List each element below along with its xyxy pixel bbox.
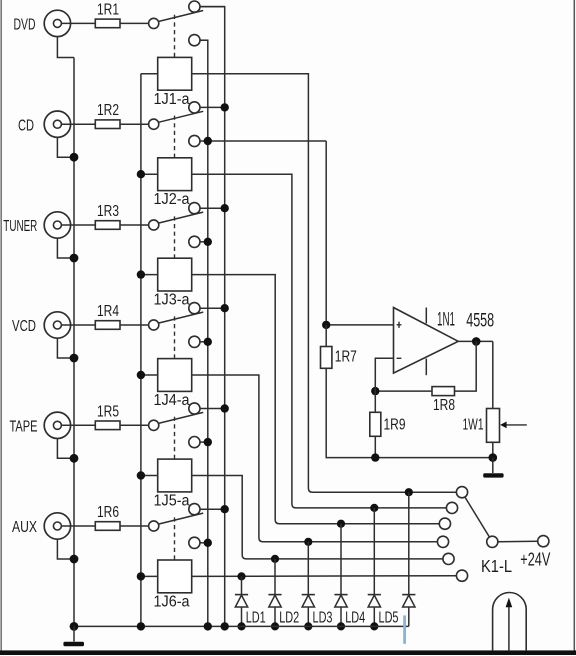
wire coil 1J1 to selector contact 1 — [192, 74, 457, 492]
wire jack pin to resistor 1R6 — [61, 525, 95, 527]
junction: NC throw on NC bus — [204, 438, 212, 446]
net label +24V — [520, 549, 550, 570]
relay 1J6 actuator dashed link — [174, 517, 176, 560]
value label 1R4 — [97, 303, 119, 320]
wire: 1R7 to analog ground rail — [326, 368, 493, 457]
wire jack shield stub to left rail — [57, 238, 74, 258]
right page border — [573, 0, 575, 651]
selector K1-L contact 1 — [456, 487, 467, 498]
svg-text:1R6: 1R6 — [97, 504, 119, 521]
switch 1J6 common contact — [149, 521, 159, 531]
wire diode LD5 drop — [373, 508, 375, 627]
wire: inverting node to 1R9 — [374, 391, 376, 412]
junction: NC throw on NC bus — [204, 238, 212, 246]
switch 1J3 NO contact — [189, 203, 200, 214]
wire jack shield stub to left rail — [57, 137, 74, 157]
selector K1-L contact 6 — [456, 570, 467, 581]
relay 1J1 actuator dashed link — [174, 15, 176, 58]
switch 1J2 armature (common to NO) — [158, 111, 203, 122]
label 1J5-a — [154, 493, 190, 510]
svg-text:LD5: LD5 — [379, 610, 399, 627]
connector J1 DVD RCA jack — [44, 10, 70, 36]
junction: 1R7 top / +input — [322, 321, 330, 329]
junction: coil on common rail — [137, 471, 145, 479]
wire diode LD4 drop — [340, 524, 342, 627]
node TUNER input label — [3, 218, 37, 235]
wire NO throw to NO bus — [200, 408, 225, 410]
resistor 1R8 — [432, 387, 455, 396]
node VCD input label — [12, 318, 36, 335]
switch 1J1 NC contact — [189, 35, 200, 46]
relay 1J4 actuator dashed link — [174, 316, 176, 358]
wire resistor to switch common — [120, 324, 149, 326]
wire: 1W1 bottom to ground rail — [492, 442, 494, 457]
wire resistor to switch common — [120, 525, 149, 527]
wire diode LD2 drop — [274, 559, 276, 627]
wire: NO contact bus (grounded) — [200, 7, 225, 627]
wire jack pin to resistor 1R1 — [61, 22, 95, 24]
relay coil 1J3 — [158, 258, 192, 291]
switch 1J5 common contact — [149, 420, 159, 430]
wire resistor to switch common — [120, 123, 149, 125]
switch 1J1 NO contact — [189, 1, 200, 12]
relay 1J2 actuator dashed link — [174, 116, 176, 158]
svg-text:CD: CD — [18, 117, 34, 134]
wire: output down to feedback — [455, 341, 477, 391]
value label 1R6 — [97, 504, 119, 521]
svg-text:1N1: 1N1 — [437, 310, 455, 331]
lamp filament arrow — [506, 598, 513, 651]
switch 1J2 NC contact — [189, 135, 200, 146]
wire NO throw to NO bus — [200, 6, 225, 8]
svg-text:K1-L: K1-L — [481, 556, 512, 576]
junction: inverting node — [371, 387, 379, 395]
connector J5 TAPE RCA jack — [44, 412, 70, 438]
op-amp + pin marking — [397, 322, 402, 328]
junction: diode LD1 on ground rail — [237, 622, 245, 630]
value label 1R9 — [384, 416, 406, 433]
wire diode LD1 drop — [241, 576, 243, 626]
wire coil to common rail — [141, 575, 158, 577]
svg-text:1J1-a: 1J1-a — [154, 91, 190, 108]
junction: diode LD2 on ground rail — [271, 622, 279, 630]
svg-text:4558: 4558 — [466, 310, 494, 331]
label 1J3-a — [154, 292, 190, 309]
diode LD2 — [268, 595, 281, 607]
junction: diode LD3 tap — [304, 538, 312, 546]
label 1J1-a — [154, 91, 190, 108]
switch 1J3 NC contact — [189, 236, 200, 247]
resistor 1R6 — [95, 522, 120, 531]
wire: K1-L common to +24V terminal — [498, 540, 538, 543]
ground symbol (op-amp section) — [483, 458, 503, 478]
selector K1-L wiper arm — [465, 497, 490, 537]
switch 1J5 NC contact — [189, 437, 200, 448]
ground symbol (main) — [63, 626, 84, 646]
switch 1J1 armature (common to NO) — [158, 11, 203, 22]
wire resistor to switch common — [120, 424, 149, 426]
wire jack shield stub to left rail — [57, 439, 74, 459]
connector J2 CD RCA jack — [44, 111, 70, 137]
junction: diode LD6 tap — [405, 488, 413, 496]
junction: NC bus on ground rail — [204, 622, 212, 630]
svg-text:+24V: +24V — [520, 549, 550, 570]
junction: coil on common rail — [137, 572, 145, 580]
wire jack shield stub to left rail — [57, 539, 74, 559]
svg-text:1R7: 1R7 — [335, 348, 357, 365]
relay 1J3 actuator dashed link — [174, 216, 176, 258]
switch 1J6 NC contact — [189, 537, 200, 548]
op-amp U1 (1N1 4558) triangle — [394, 308, 459, 374]
svg-text:1J4-a: 1J4-a — [154, 392, 190, 409]
selector K1-L contact 5 — [443, 553, 454, 564]
resistor 1R1 — [95, 19, 120, 28]
wire coil 1J4 to selector contact 4 — [192, 375, 438, 542]
svg-text:LD2: LD2 — [279, 610, 299, 627]
relay coil 1J5 — [158, 459, 192, 492]
op-amp power pin tick (top) — [425, 308, 427, 324]
indicator lamp (bottom edge, partial) — [493, 593, 527, 652]
wire NC throw to NC bus — [200, 39, 208, 41]
wire: +input node down to 1R7 — [325, 325, 327, 347]
switch 1J4 NC contact — [189, 336, 200, 347]
junction: shield stub on left rail — [70, 555, 79, 564]
junction: shield stub on left rail — [70, 254, 79, 263]
junction: shield stub on left rail — [70, 354, 79, 363]
junction: NO throw on NO bus — [221, 103, 229, 111]
diode LD4 — [334, 595, 347, 607]
value label 1R2 — [97, 102, 119, 119]
svg-text:DVD: DVD — [14, 17, 36, 34]
wire NC throw to NC bus — [200, 542, 208, 544]
wire: 1R9 to analog ground rail — [374, 436, 376, 457]
junction: NO throw on NO bus — [221, 404, 229, 412]
value label 1W1 — [463, 416, 484, 433]
svg-text:1R1: 1R1 — [97, 1, 119, 18]
label 1J4-a — [154, 392, 190, 409]
wire coil to common rail — [141, 73, 158, 75]
switch 1J6 armature (common to NO) — [158, 513, 203, 524]
switch 1J3 armature (common to NO) — [158, 212, 203, 223]
junction: diode LD5 on ground rail — [370, 622, 378, 630]
wire: inverting node to - input — [375, 358, 393, 391]
value label LD1 — [246, 610, 266, 627]
junction: NC throw on NC bus — [204, 338, 212, 346]
switch 1J2 NO contact — [189, 102, 200, 113]
switch 1J4 NO contact — [189, 303, 200, 314]
junction: NO throw on NO bus — [221, 304, 229, 312]
wire coil to common rail — [141, 173, 158, 175]
wire: op-amp output — [458, 340, 493, 342]
selector K1-L contact 4 — [437, 536, 448, 547]
switch 1J2 common contact — [149, 119, 159, 129]
junction: NO throw on NO bus — [221, 505, 229, 513]
junction: coil on common rail — [137, 371, 145, 379]
wire: NC bus feed to op-amp non-inverting input — [326, 141, 393, 325]
wire: 1R8 to inverting node — [375, 390, 432, 392]
op-amp power pin tick (bottom) — [425, 359, 427, 376]
wire NC throw to NC bus — [200, 441, 208, 443]
svg-text:1J3-a: 1J3-a — [154, 292, 190, 309]
value label 1R8 — [433, 397, 455, 414]
wire NO throw to NO bus — [200, 106, 225, 108]
switch 1J3 common contact — [149, 220, 159, 230]
value label 1R7 — [335, 348, 357, 365]
relay coil 1J6 — [158, 560, 192, 593]
wire coil to common rail — [141, 374, 158, 376]
relay 1J5 actuator dashed link — [174, 417, 176, 459]
wire NC throw to NC bus — [200, 341, 208, 343]
svg-text:1R8: 1R8 — [433, 397, 455, 414]
svg-text:LD3: LD3 — [313, 610, 333, 627]
junction: output node — [472, 337, 481, 346]
wire: NC contact bus (to op-amp) — [200, 40, 208, 626]
value label 1R3 — [97, 203, 119, 220]
relay coil 1J2 — [158, 158, 192, 191]
switch 1J4 armature (common to NO) — [158, 312, 203, 323]
junction: diode LD1 tap — [237, 572, 245, 580]
svg-text:1W1: 1W1 — [463, 416, 484, 433]
diode LD5 — [368, 595, 381, 607]
wire: relay coil common rail — [140, 74, 142, 627]
junction: diode LD3 on ground rail — [304, 622, 312, 630]
svg-text:1R9: 1R9 — [384, 416, 406, 433]
value label LD4 — [345, 610, 365, 627]
resistor 1R9 — [370, 412, 381, 436]
wire NC throw to NC bus — [200, 140, 326, 142]
wire coil 1J3 to selector contact 3 — [192, 275, 440, 524]
svg-text:1J6-a: 1J6-a — [154, 593, 190, 610]
svg-text:LD1: LD1 — [246, 610, 266, 627]
wire jack pin to resistor 1R4 — [61, 324, 95, 326]
selector K1-L contact 2 — [446, 502, 457, 513]
potentiometer 1W1 — [487, 409, 500, 443]
wire jack pin to resistor 1R2 — [61, 123, 95, 125]
wire: output to volume pot 1W1 — [492, 341, 494, 408]
relay coil 1J1 — [158, 57, 192, 90]
label 1J6-a — [154, 593, 190, 610]
selector K1-L contact 3 — [439, 518, 450, 529]
svg-text:AUX: AUX — [12, 519, 37, 536]
junction: shield stub on left rail — [70, 153, 79, 162]
relay coil 1J4 — [158, 359, 192, 392]
switch 1J6 NO contact — [189, 504, 200, 515]
node AUX input label — [12, 519, 37, 536]
wire NO throw to NO bus — [200, 207, 225, 209]
wire jack shield stub to left rail — [57, 37, 74, 58]
label K1-L — [481, 556, 512, 576]
junction: NO throw on NO bus — [221, 204, 229, 212]
switch 1J5 armature (common to NO) — [158, 412, 203, 423]
junction: diode LD2 tap — [271, 555, 279, 563]
junction: diode LD4 tap — [337, 520, 345, 528]
svg-text:VCD: VCD — [12, 318, 36, 335]
wire jack pin to resistor 1R3 — [61, 224, 95, 226]
resistor 1R5 — [95, 421, 120, 430]
wire diode LD6 drop — [408, 492, 410, 626]
wire coil 1J6 to selector contact 6 — [192, 575, 457, 578]
svg-text:LD4: LD4 — [345, 610, 365, 627]
node TAPE input label — [10, 418, 38, 435]
switch 1J5 NO contact — [189, 403, 200, 414]
wire NC throw to NC bus — [200, 241, 208, 243]
connector J3 TUNER RCA jack — [44, 212, 70, 238]
wire jack shield stub to left rail — [57, 338, 74, 358]
diode LD6 — [402, 595, 415, 607]
resistor 1R7 — [321, 347, 332, 369]
value label LD2 — [279, 610, 299, 627]
op-amp - pin marking — [397, 357, 402, 359]
switch 1J4 common contact — [149, 320, 159, 330]
wire NO throw to NO bus — [200, 508, 225, 510]
selector K1-L common contact — [487, 536, 498, 547]
wire diode LD3 drop — [307, 542, 309, 627]
resistor 1R3 — [95, 221, 120, 230]
junction: shield stub on left rail — [70, 454, 79, 463]
junction: left rail to ground rail — [70, 622, 79, 631]
value label LD3 — [313, 610, 333, 627]
wire jack pin to resistor 1R5 — [61, 424, 95, 426]
value label 1R1 — [97, 1, 119, 18]
junction: coil rail on ground rail — [137, 622, 145, 630]
label 1N1 — [437, 310, 455, 331]
svg-text:1R3: 1R3 — [97, 203, 119, 220]
label 1J2-a — [154, 191, 190, 208]
junction: diode LD5 tap — [370, 504, 378, 512]
label 4558 — [466, 310, 494, 331]
svg-text:1J5-a: 1J5-a — [154, 493, 190, 510]
svg-text:1R5: 1R5 — [97, 403, 119, 420]
node CD input label — [18, 117, 34, 134]
left page border — [0, 0, 2, 651]
value label LD5 — [379, 610, 399, 627]
svg-text:TUNER: TUNER — [3, 218, 37, 235]
svg-text:1J2-a: 1J2-a — [154, 191, 190, 208]
junction: 1W1 on ground rail — [489, 453, 498, 462]
connector J4 VCD RCA jack — [44, 312, 70, 338]
junction: coil on common rail — [137, 270, 145, 278]
diode LD3 — [302, 595, 315, 607]
(scan artifact) blue cursor line — [403, 615, 406, 643]
resistor 1R2 — [95, 120, 120, 129]
connector J6 AUX RCA jack — [44, 513, 70, 539]
junction: NC throw on NC bus — [204, 137, 212, 145]
wire coil to common rail — [141, 274, 158, 276]
potentiometer wiper arrow — [500, 422, 527, 429]
junction: coil on common rail — [137, 170, 145, 178]
diode LD1 — [235, 595, 248, 607]
svg-text:TAPE: TAPE — [10, 418, 38, 435]
junction: NC throw on NC bus — [204, 539, 212, 547]
wire: left ground rail (jack shields to ground) — [73, 58, 75, 627]
resistor 1R4 — [95, 321, 120, 330]
svg-text:1R4: 1R4 — [97, 303, 119, 320]
terminal +24V contact — [538, 536, 549, 547]
node DVD input label — [14, 17, 36, 34]
wire resistor to switch common — [120, 22, 149, 24]
value label 1R5 — [97, 403, 119, 420]
wire NO throw to NO bus — [200, 307, 225, 309]
wire coil 1J2 to selector contact 2 — [192, 174, 447, 508]
junction: 1R9 on ground rail — [371, 453, 379, 461]
wire coil to common rail — [141, 475, 158, 477]
wire: bottom ground rail — [74, 625, 409, 627]
junction: diode LD4 on ground rail — [337, 622, 345, 630]
bottom page border bar — [0, 650, 576, 655]
junction: NO bus on ground rail — [221, 622, 229, 630]
wire coil 1J5 to selector contact 5 — [192, 476, 443, 559]
wire resistor to switch common — [120, 224, 149, 226]
svg-text:1R2: 1R2 — [97, 102, 119, 119]
switch 1J1 common contact — [149, 18, 159, 28]
